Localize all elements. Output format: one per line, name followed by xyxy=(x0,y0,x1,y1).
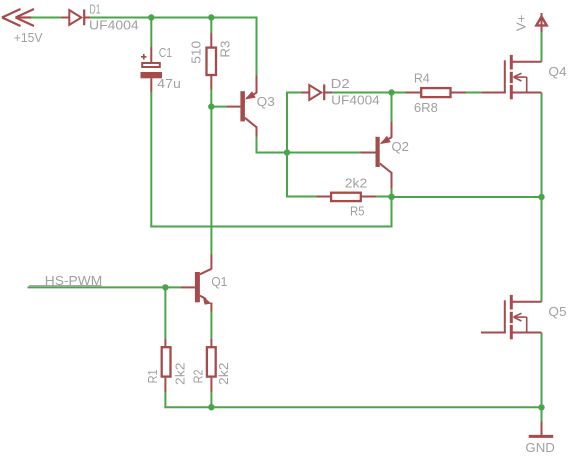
svg-text:C1: C1 xyxy=(159,45,172,60)
svg-text:2k2: 2k2 xyxy=(216,362,231,385)
wire R3 bottom to node xyxy=(210,90,212,107)
resistor R5 xyxy=(317,193,377,201)
junction dot R3 bottom Q3 base xyxy=(208,103,214,109)
svg-text:R4: R4 xyxy=(414,71,430,86)
wire D2 cathode to R4 xyxy=(332,92,406,94)
wire top rail from input to D1 xyxy=(31,17,62,19)
svg-text:510: 510 xyxy=(189,41,204,64)
svg-text:UF4004: UF4004 xyxy=(89,18,139,33)
resistor R3 xyxy=(207,33,217,90)
svg-text:D1: D1 xyxy=(90,1,101,16)
wire Q3 emitter drop xyxy=(256,17,258,76)
mosfet Q4 xyxy=(482,55,542,99)
diode D1 xyxy=(61,9,90,25)
wire C1 bottom vertical xyxy=(150,92,152,228)
junction dot Q4 source Q5 drain xyxy=(538,194,544,200)
transistor Q3 xyxy=(227,76,257,137)
svg-text:R2: R2 xyxy=(191,369,206,383)
label HS-PWM net xyxy=(29,285,102,287)
wire Q2 base from node xyxy=(287,152,361,154)
ground symbol GND xyxy=(529,422,554,437)
wire Q3 collector down xyxy=(256,137,258,154)
wire R3 top xyxy=(210,18,212,34)
wire node to Q5 drain xyxy=(541,197,543,302)
wire Q4 drain up to V+ xyxy=(541,32,543,61)
svg-text:2k2: 2k2 xyxy=(173,362,188,385)
supply V+ symbol xyxy=(536,13,546,32)
junction dot switch node xyxy=(388,194,394,200)
svg-text:GND: GND xyxy=(525,440,555,455)
transistor Q2 xyxy=(361,122,392,189)
connector +15V input arrow xyxy=(2,9,34,26)
svg-text:V+: V+ xyxy=(514,15,529,31)
wire R2 bottom xyxy=(210,393,212,408)
junction dot top rail C1 xyxy=(148,14,154,20)
svg-text:Q4: Q4 xyxy=(548,64,566,79)
svg-text:Q2: Q2 xyxy=(392,139,409,154)
diode D2 xyxy=(301,84,332,100)
resistor R1 xyxy=(162,339,171,393)
wire R5 left xyxy=(286,196,317,198)
wire Q2 emitter up xyxy=(391,93,393,122)
svg-text:47u: 47u xyxy=(157,76,181,91)
wire Q2 collector down xyxy=(391,189,393,198)
wire C1 top xyxy=(150,18,152,48)
resistor R4 xyxy=(406,88,467,97)
junction dot Q3 collector node xyxy=(284,149,290,155)
wire R1 top xyxy=(164,287,166,339)
wire Q1 collector riser xyxy=(210,107,212,255)
transistor Q1 xyxy=(181,255,211,312)
wire to D2 anode xyxy=(287,92,301,94)
wire switch node row xyxy=(392,196,542,198)
svg-text:UF4004: UF4004 xyxy=(331,93,380,108)
wire Q3 collector to junction xyxy=(257,152,288,154)
capacitor C1 xyxy=(141,47,163,92)
wire Q1 emitter to R2 xyxy=(210,312,212,340)
wire R4 right to Q4 gate xyxy=(466,92,482,94)
wire Q5 source to GND stub xyxy=(541,407,543,421)
svg-text:R5: R5 xyxy=(350,204,365,219)
junction dot top rail R3 xyxy=(208,14,214,20)
svg-text:R1: R1 xyxy=(145,369,160,383)
svg-text:R3: R3 xyxy=(217,41,232,58)
wire C1 bottom horizontal to node xyxy=(150,226,391,228)
resistor R2 xyxy=(207,339,216,393)
wire Q4 source down xyxy=(541,93,543,198)
junction dot HS-PWM Q1 base R1 xyxy=(162,284,168,290)
svg-text:HS-PWM: HS-PWM xyxy=(45,273,103,288)
svg-text:2k2: 2k2 xyxy=(345,176,368,191)
wire bottom rail xyxy=(164,406,541,408)
junction dot R2 bottom rail xyxy=(208,404,214,410)
wire Q5 source down xyxy=(541,333,543,408)
wire top rail D1 cathode to corner xyxy=(90,17,257,19)
junction dot GND node xyxy=(538,404,544,410)
wire R5 right to node xyxy=(377,196,392,198)
wire riser to switch node xyxy=(391,197,393,228)
mosfet Q5 xyxy=(481,295,542,339)
wire HS-PWM input xyxy=(28,286,182,288)
svg-text:6R8: 6R8 xyxy=(414,100,438,115)
svg-text:+15V: +15V xyxy=(14,30,43,45)
svg-text:Q5: Q5 xyxy=(548,304,566,319)
wire D2 anode branch vertical xyxy=(286,92,288,198)
wire node to Q3 base xyxy=(211,106,227,108)
svg-text:Q3: Q3 xyxy=(257,94,275,109)
svg-text:D2: D2 xyxy=(331,76,350,91)
svg-text:Q1: Q1 xyxy=(211,274,227,289)
wire R1 bottom xyxy=(164,393,166,409)
junction dot D2 cathode R4 Q2 emitter xyxy=(388,89,394,95)
